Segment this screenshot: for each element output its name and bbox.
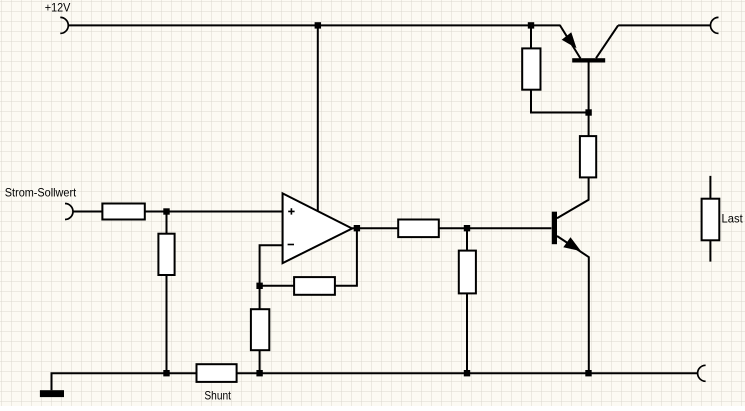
- svg-text:Shunt: Shunt: [204, 388, 231, 402]
- svg-text:+12V: +12V: [45, 1, 71, 15]
- svg-text:Last: Last: [722, 211, 744, 225]
- svg-text:Strom-Sollwert: Strom-Sollwert: [5, 185, 77, 199]
